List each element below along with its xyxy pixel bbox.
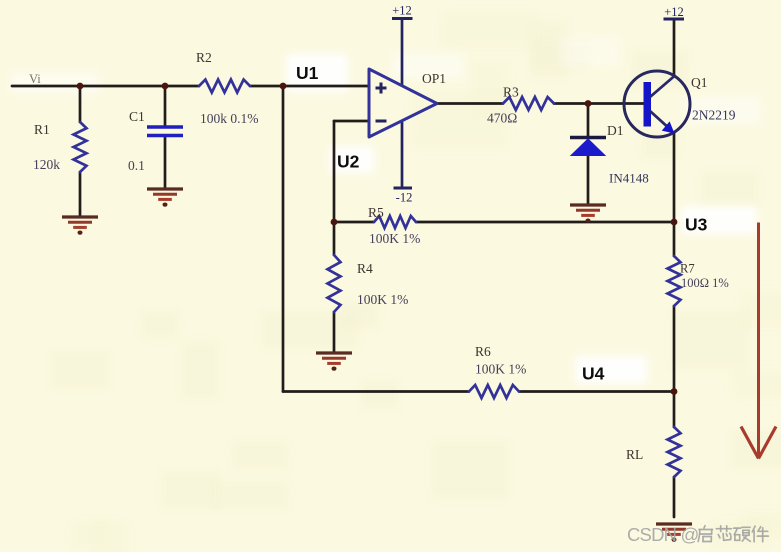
svg-text:120k: 120k bbox=[33, 157, 60, 172]
svg-text:RL: RL bbox=[626, 447, 643, 462]
svg-text:+12: +12 bbox=[392, 4, 412, 18]
svg-text:R3: R3 bbox=[503, 85, 519, 100]
svg-text:100Ω 1%: 100Ω 1% bbox=[681, 276, 729, 290]
svg-text:R6: R6 bbox=[475, 344, 491, 359]
svg-text:R5: R5 bbox=[368, 205, 384, 220]
svg-text:R2: R2 bbox=[196, 50, 212, 65]
svg-text:100K 1%: 100K 1% bbox=[357, 292, 408, 307]
svg-text:OP1: OP1 bbox=[422, 71, 446, 86]
svg-text:Vi: Vi bbox=[29, 72, 41, 86]
svg-text:Q1: Q1 bbox=[691, 75, 708, 90]
svg-text:100K 1%: 100K 1% bbox=[369, 231, 420, 246]
svg-text:-12: -12 bbox=[396, 191, 413, 205]
svg-text:U1: U1 bbox=[296, 63, 319, 83]
svg-text:D1: D1 bbox=[607, 123, 624, 138]
svg-text:R4: R4 bbox=[357, 261, 373, 276]
svg-text:U3: U3 bbox=[685, 215, 708, 235]
svg-text:R7: R7 bbox=[680, 262, 695, 276]
svg-text:2N2219: 2N2219 bbox=[692, 108, 736, 123]
svg-text:R1: R1 bbox=[34, 122, 50, 137]
svg-text:0.1: 0.1 bbox=[128, 158, 145, 173]
svg-text:IN4148: IN4148 bbox=[609, 171, 649, 186]
svg-text:U4: U4 bbox=[582, 364, 605, 384]
svg-text:U2: U2 bbox=[337, 152, 360, 172]
svg-text:100K 1%: 100K 1% bbox=[475, 362, 526, 377]
svg-text:+12: +12 bbox=[664, 5, 684, 19]
svg-text:470Ω: 470Ω bbox=[487, 111, 517, 126]
svg-text:C1: C1 bbox=[129, 109, 145, 124]
svg-text:CSDN @: CSDN @ bbox=[627, 524, 699, 545]
svg-text:100k 0.1%: 100k 0.1% bbox=[200, 111, 259, 126]
